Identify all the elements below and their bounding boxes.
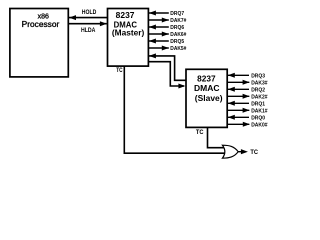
OR gate G1 (TC combiner) [222,145,238,158]
svg-text:TC: TC [196,130,204,136]
svg-text:DMAC: DMAC [194,83,220,93]
svg-text:DRQ3: DRQ3 [251,73,265,79]
wire DRQ7 (input to master) [149,11,169,16]
wire DAK2# (output of slave) [227,94,249,99]
wire DRQ1 (input to slave) [228,101,249,106]
wire DAK1# (output of slave) [227,108,249,113]
wire DAK0# (output of slave) [227,122,250,127]
wire TC from slave to OR gate [208,127,227,147]
block CPU x86 Processor [10,9,68,77]
wire DRQ6 (input to master) [149,25,169,30]
wire DAK4# cascade (master to slave HLDA) [148,62,185,89]
block U1 8237 DMAC (Master) [108,9,149,67]
svg-text:8237: 8237 [197,74,216,84]
wire DAK3# (output of slave) [227,80,249,85]
wire HLDA (CPU to master) [68,21,107,26]
block U2 8237 DMAC (Slave) [186,69,227,127]
wire DAK6# (output of master) [148,32,168,37]
wire HRQ cascade (slave to master DRQ4) [149,53,186,80]
svg-text:DRQ6: DRQ6 [170,25,184,31]
wire DAK5# (output of master) [148,46,168,51]
svg-text:DAK0#: DAK0# [251,122,268,128]
svg-text:DRQ0: DRQ0 [251,115,265,121]
wire DRQ3 (input to slave) [228,73,249,78]
svg-text:DAK1#: DAK1# [251,108,268,114]
svg-text:DRQ2: DRQ2 [251,87,265,93]
wire DRQ5 (input to master) [149,39,169,44]
svg-text:DAK7#: DAK7# [170,18,187,24]
svg-text:TC: TC [250,150,258,156]
svg-text:HOLD: HOLD [82,9,97,16]
wire TC from master to OR gate [124,66,226,153]
svg-text:(Master): (Master) [112,28,145,38]
svg-text:(Slave): (Slave) [195,93,223,103]
svg-text:Processor: Processor [22,20,60,29]
svg-text:DRQ5: DRQ5 [170,39,184,45]
wire DAK7# (output of master) [148,18,168,23]
wire TC output of OR gate [238,149,248,154]
svg-text:DAK6#: DAK6# [170,32,187,38]
svg-text:DRQ1: DRQ1 [251,101,265,107]
svg-text:DAK2#: DAK2# [251,94,268,100]
wire DRQ2 (input to slave) [228,87,249,92]
svg-text:DAK5#: DAK5# [170,46,187,52]
svg-text:HLDA: HLDA [81,27,96,34]
svg-text:TC: TC [116,68,123,74]
wire HOLD (master to CPU) [69,15,108,20]
svg-text:DRQ7: DRQ7 [170,11,184,17]
wire DRQ0 (input to slave) [228,115,249,120]
svg-text:DAK3#: DAK3# [251,80,268,86]
